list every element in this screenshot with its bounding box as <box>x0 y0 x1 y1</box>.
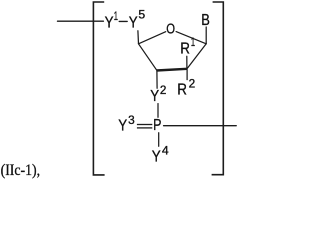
bond Y2 to P <box>157 104 159 118</box>
svg-text:R: R <box>177 82 187 99</box>
bond C4' to C3' <box>139 44 157 71</box>
bond C1' to B <box>205 27 207 44</box>
bond Y5 to C4' <box>137 31 140 44</box>
wire external bond into left bracket <box>58 20 104 22</box>
svg-text:(IIc-1),: (IIc-1), <box>1 162 41 179</box>
double bond Y3=P lower line <box>137 127 152 129</box>
bond C2' to C1' <box>187 44 206 69</box>
svg-text:2: 2 <box>189 78 196 90</box>
svg-text:R: R <box>180 41 190 58</box>
bond C2' to R2 <box>186 70 188 80</box>
svg-text:Y: Y <box>118 118 127 135</box>
right bracket <box>212 2 224 175</box>
left bracket <box>93 2 104 175</box>
svg-text:P: P <box>153 117 161 134</box>
bond O to C4' <box>139 32 166 44</box>
bond C3' to Y2 <box>156 71 158 88</box>
svg-text:Y: Y <box>129 15 138 32</box>
wire P to right bracket <box>164 125 237 127</box>
svg-text:3: 3 <box>128 115 135 127</box>
svg-text:1: 1 <box>114 11 118 23</box>
bond Y1-Y5 dash <box>119 20 127 22</box>
bond C3' to C2' bold <box>156 69 187 71</box>
bond P to Y4 <box>158 133 160 147</box>
svg-text:5: 5 <box>138 10 145 22</box>
svg-text:2: 2 <box>160 85 167 97</box>
svg-text:B: B <box>201 12 210 29</box>
svg-text:1: 1 <box>191 37 195 49</box>
svg-text:Y: Y <box>152 148 161 165</box>
svg-text:Y: Y <box>150 88 159 105</box>
bond O to C1' <box>176 32 206 44</box>
bond C2' to R1 <box>186 56 188 69</box>
svg-text:4: 4 <box>162 145 169 157</box>
svg-text:Y: Y <box>105 15 114 32</box>
double bond Y3=P upper line <box>137 124 152 126</box>
svg-text:O: O <box>166 21 175 38</box>
